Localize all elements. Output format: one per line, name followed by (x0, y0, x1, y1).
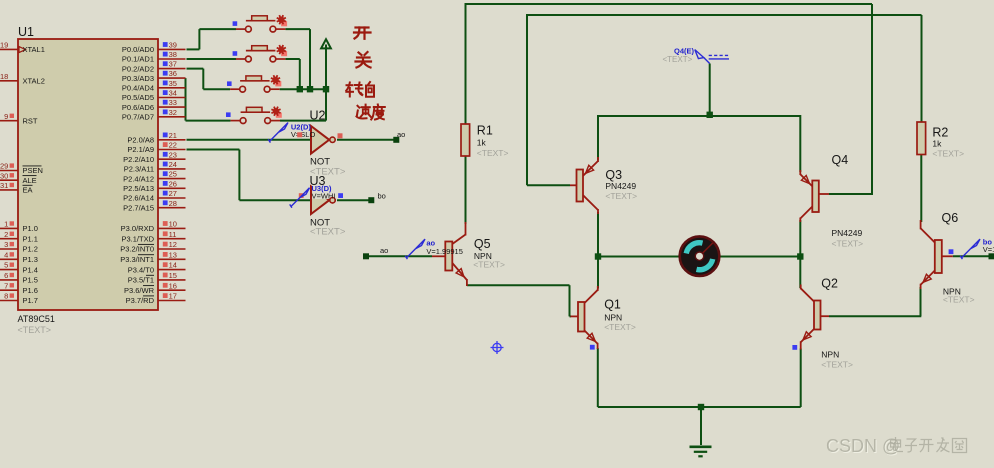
probe U3(D) (290, 188, 310, 208)
svg-text:P0.3/AD3: P0.3/AD3 (122, 74, 154, 83)
pin P2.2/A10 number 23 (123, 150, 185, 164)
svg-text:26: 26 (169, 179, 177, 188)
wire button2 drop (299, 59, 301, 89)
button SW2 (pin38) (236, 46, 286, 62)
svg-text:P2.2/A10: P2.2/A10 (123, 155, 154, 164)
wire power drop common node (325, 48, 327, 121)
svg-text:V=1.99915: V=1.99915 (426, 247, 463, 256)
svg-text:14: 14 (169, 261, 177, 270)
svg-text:U2: U2 (310, 109, 326, 123)
wire riser x872 to Q4 base (871, 4, 873, 194)
wire ground stem (700, 407, 702, 445)
wire button1 right (286, 28, 311, 30)
wire Q1 collector riser (597, 257, 599, 289)
pin P3.4/T0 number 14 (128, 261, 186, 275)
transistor Q2 NPN (801, 285, 829, 350)
svg-text:28: 28 (169, 199, 177, 208)
svg-text:AT89C51: AT89C51 (18, 314, 55, 324)
svg-text:16: 16 (169, 281, 177, 290)
wire pin22 east (187, 149, 240, 151)
svg-text:<TEXT>: <TEXT> (477, 148, 509, 158)
svg-text:P3.0/RXD: P3.0/RXD (121, 224, 155, 233)
svg-text:13: 13 (169, 250, 177, 259)
svg-text:3: 3 (4, 240, 8, 249)
wire motor left (598, 256, 679, 258)
svg-text:<TEXT>: <TEXT> (18, 325, 52, 335)
wire U3 output to bo terminal (337, 199, 371, 201)
button SW3 (pin37) (230, 76, 280, 92)
marker blue Q2 (792, 345, 797, 350)
wire pin38 to button2 (187, 58, 237, 60)
label chinese sudu (speed) (357, 105, 385, 120)
svg-text:32: 32 (169, 108, 177, 117)
wire motor right (721, 256, 801, 258)
arrow Q2 emitter (803, 332, 811, 340)
wire riser x527 down to Q3 base (526, 14, 528, 185)
pin P2.7/A15 number 28 (123, 199, 185, 213)
not-gate U3 (311, 186, 335, 214)
marker red U3 input (299, 193, 304, 198)
not-gate U2 (311, 126, 335, 154)
svg-text:P0.1/AD1: P0.1/AD1 (122, 55, 154, 64)
svg-text:12: 12 (169, 240, 177, 249)
svg-text:EA: EA (23, 186, 33, 195)
svg-text:ao: ao (380, 246, 388, 255)
wire pin36 drop (185, 78, 187, 121)
wire probe Q4E riser (709, 64, 711, 117)
wire Q6 emitter to Q2 base (829, 315, 921, 317)
svg-text:P1.1: P1.1 (23, 234, 38, 243)
svg-text:15: 15 (169, 271, 177, 280)
marker blue button1 (233, 21, 238, 26)
svg-text:P2.7/A15: P2.7/A15 (123, 203, 154, 212)
pin mark XTAL1 arrow (19, 47, 26, 53)
svg-text:P2.4/A12: P2.4/A12 (123, 174, 154, 183)
svg-text:18: 18 (0, 72, 8, 81)
junction button2 drop (297, 86, 303, 92)
pin P2.1/A9 number 22 (127, 141, 185, 155)
wire Q3Q4 emitter rail y116 (598, 115, 800, 117)
svg-text:38: 38 (169, 50, 177, 59)
arrow Q5 emitter (456, 269, 464, 277)
wire pin39 east (187, 48, 200, 50)
svg-text:P1.4: P1.4 (23, 265, 38, 274)
pin P1.3 number 4 (0, 250, 38, 264)
svg-text:37: 37 (169, 60, 177, 69)
pin P0.0/AD0 number 39 (122, 41, 186, 55)
transistor Q4 PN4249 (800, 170, 829, 222)
svg-text:Q3: Q3 (605, 168, 622, 182)
svg-text:P1.6: P1.6 (23, 286, 38, 295)
pin P1.1 number 2 (0, 230, 38, 244)
svg-text:17: 17 (169, 292, 177, 301)
svg-text:2: 2 (4, 230, 8, 239)
pin P3.7/RD number 17 (126, 292, 186, 306)
wire Q1 base riser (569, 285, 571, 316)
svg-text:27: 27 (169, 189, 177, 198)
wire Q2 emitter drop to ground rail (800, 349, 802, 408)
wire second rail Q3base to R2top (527, 14, 922, 16)
svg-text:<TEXT>: <TEXT> (821, 360, 853, 370)
wire button3 right common (280, 88, 326, 90)
svg-text:P1.2: P1.2 (23, 245, 38, 254)
svg-text:P2.0/A8: P2.0/A8 (127, 136, 154, 145)
svg-text:P0.6/AD6: P0.6/AD6 (122, 103, 154, 112)
svg-text:<TEXT>: <TEXT> (943, 295, 975, 305)
svg-text:P3.3/INT1: P3.3/INT1 (120, 255, 154, 264)
pin P1.2 number 3 (0, 240, 38, 254)
wire top rail R1top to Q4 base riser (466, 3, 873, 5)
pin P1.5 number 6 (0, 271, 38, 285)
svg-text:Q4: Q4 (832, 153, 849, 167)
marker blue Q1 (590, 345, 595, 350)
svg-text:R1: R1 (477, 124, 493, 138)
wire ground rail (598, 406, 801, 408)
pin P1.4 number 5 (0, 261, 38, 275)
svg-text:1k: 1k (477, 137, 487, 147)
svg-text:<TEXT>: <TEXT> (663, 55, 693, 64)
svg-text:<TEXT>: <TEXT> (605, 191, 637, 201)
ground (690, 447, 712, 457)
pin P3.2/INT0 number 12 (120, 240, 185, 254)
pin P0.3/AD3 number 36 (122, 69, 186, 83)
wire R1 top riser (465, 3, 467, 124)
svg-text:P1.3: P1.3 (23, 255, 38, 264)
wire Q3 collector to motor-left node (597, 212, 599, 258)
arrow Q3 emitter (586, 165, 594, 173)
svg-text:<TEXT>: <TEXT> (932, 148, 964, 158)
svg-text:33: 33 (169, 98, 177, 107)
pin P3.6/WR number 16 (124, 281, 186, 295)
wire Q4 base horizontal (829, 193, 873, 195)
svg-text:22: 22 (169, 141, 177, 150)
transistor Q1 NPN (571, 286, 598, 349)
pin P3.3/INT1 number 13 (120, 250, 185, 264)
transistor Q5 NPN (432, 222, 467, 286)
svg-text:36: 36 (169, 69, 177, 78)
svg-text:<TEXT>: <TEXT> (604, 322, 636, 332)
arrow Q6 emitter (923, 274, 931, 282)
pin P0.4/AD4 number 35 (122, 79, 186, 93)
terminal bo input (989, 253, 994, 259)
svg-text:P2.1/A9: P2.1/A9 (127, 145, 154, 154)
terminal ao output (393, 137, 399, 143)
svg-text:30: 30 (0, 171, 8, 180)
svg-text:25: 25 (169, 170, 177, 179)
svg-text:Q5: Q5 (474, 237, 491, 251)
arrow Q4 emitter (801, 176, 809, 184)
marker blue U3 output (338, 193, 343, 198)
svg-text:P3.1/TXD: P3.1/TXD (121, 234, 154, 243)
svg-text:11: 11 (169, 230, 177, 239)
wire Q6 base to bo terminal (953, 255, 992, 257)
svg-text:NPN: NPN (821, 349, 839, 359)
svg-text:19: 19 (0, 41, 8, 50)
watermark chinese dianzikaifaquan (891, 437, 967, 453)
svg-text:34: 34 (169, 89, 177, 98)
wire Q1 emitter drop to ground rail (597, 348, 599, 407)
svg-text:PN4249: PN4249 (832, 228, 863, 238)
pin P1.0 number 1 (0, 220, 38, 234)
svg-text:P0.0/AD0: P0.0/AD0 (122, 45, 154, 54)
svg-text:P0.4/AD4: P0.4/AD4 (122, 84, 154, 93)
junction button1 drop (307, 86, 313, 92)
wire pin21 to U2 input (187, 139, 312, 141)
svg-text:P3.7/RD: P3.7/RD (126, 296, 155, 305)
origin marker (491, 341, 504, 354)
svg-text:10: 10 (169, 220, 177, 229)
svg-text:ao: ao (397, 130, 405, 139)
svg-text:P2.3/A11: P2.3/A11 (124, 165, 154, 174)
junction ground rail (698, 404, 704, 410)
wire Q1 base stubjoin (570, 315, 572, 317)
junction power node (323, 86, 329, 92)
probe ao Q5 (405, 239, 425, 259)
svg-text:1k: 1k (932, 139, 942, 149)
svg-text:29: 29 (0, 162, 8, 171)
svg-text:P1.5: P1.5 (23, 276, 38, 285)
probe bo Q6 (960, 239, 980, 259)
svg-text:RST: RST (23, 116, 38, 125)
pin RST number 9 (0, 112, 38, 126)
label chinese guan (switch) (356, 52, 372, 68)
wire pin39 riser (198, 29, 200, 49)
pin P2.5/A13 number 26 (123, 179, 185, 193)
junction Q4E probe tap (707, 112, 713, 118)
pin ALE number 30 (0, 171, 37, 185)
svg-text:P1.0: P1.0 (23, 224, 38, 233)
svg-text:Q1: Q1 (604, 298, 621, 312)
wire Q2 collector riser (799, 257, 801, 289)
pin P0.5/AD5 number 34 (122, 89, 186, 103)
svg-text:V=WHI: V=WHI (312, 191, 336, 200)
pin XTAL2 number 18 (0, 72, 45, 86)
marker blue Q6 (949, 249, 954, 254)
pin P3.1/TXD number 11 (121, 230, 185, 244)
wire button1 drop (309, 29, 311, 89)
svg-text:9: 9 (4, 112, 8, 121)
svg-text:P3.2/INT0: P3.2/INT0 (120, 245, 154, 254)
pin P0.6/AD6 number 33 (122, 98, 186, 112)
svg-text:<TEXT>: <TEXT> (310, 227, 346, 238)
pin P3.0/RXD number 10 (121, 220, 186, 234)
svg-text:8: 8 (4, 292, 8, 301)
probe U2(D) (268, 123, 288, 143)
wire Q4 collector drop (799, 220, 801, 257)
svg-text:PN4249: PN4249 (605, 181, 636, 191)
pin P1.7 number 8 (0, 292, 38, 306)
svg-text:4: 4 (4, 250, 8, 259)
svg-text:<TEXT>: <TEXT> (473, 260, 505, 270)
button SW4 (pin36) (231, 107, 281, 123)
wire to button3 left (203, 88, 230, 90)
svg-text:P3.4/T0: P3.4/T0 (128, 265, 154, 274)
svg-text:P1.7: P1.7 (23, 296, 38, 305)
pin PSEN number 29 (0, 162, 43, 176)
transistor Q6 NPN (921, 220, 953, 289)
marker blue button3 (227, 81, 232, 86)
svg-text:1: 1 (4, 220, 8, 229)
resistor R1 (461, 124, 470, 156)
labelbox U3 covers (312, 184, 339, 199)
wire pin37 east (187, 68, 204, 70)
svg-text:U1: U1 (18, 25, 34, 39)
wire R1 bottom to Q5 collector (465, 156, 467, 224)
svg-text:39: 39 (169, 41, 177, 50)
wire U2 output to ao terminal (337, 139, 396, 141)
wire button4 right (280, 120, 326, 122)
svg-text:XTAL2: XTAL2 (23, 77, 45, 86)
terminal ao input (363, 253, 369, 259)
pin P3.5/T1 number 15 (128, 271, 186, 285)
junction motor left node (595, 253, 601, 259)
svg-text:R2: R2 (932, 126, 948, 140)
svg-text:Q2: Q2 (821, 277, 838, 291)
svg-text:7: 7 (4, 281, 8, 290)
svg-text:P3.6/WR: P3.6/WR (124, 286, 155, 295)
button SW1 (pin39) (236, 16, 286, 32)
pin P2.6/A14 number 27 (123, 189, 185, 203)
svg-text:24: 24 (169, 160, 177, 169)
wire to button4 left (186, 120, 231, 122)
pin XTAL1 number 19 (0, 41, 45, 55)
power terminal arrow (321, 39, 331, 49)
svg-text:P2.6/A14: P2.6/A14 (123, 194, 154, 203)
svg-text:P3.5/T1: P3.5/T1 (128, 276, 154, 285)
wire Q3 base horizontal (527, 184, 570, 186)
pin P0.7/AD7 number 32 (122, 108, 186, 122)
svg-text:5: 5 (4, 261, 8, 270)
label chinese zhuanxiang (direction) (346, 82, 374, 97)
pin P0.2/AD2 number 37 (122, 60, 186, 74)
wire R2 bottom to Q6 collector (920, 155, 922, 223)
svg-text:CSDN @: CSDN @ (826, 436, 900, 456)
svg-text:P0.2/AD2: P0.2/AD2 (122, 64, 154, 73)
pin P0.1/AD1 number 38 (122, 50, 186, 64)
svg-text:NPN: NPN (604, 312, 622, 322)
wire to button1 left (199, 28, 236, 30)
wire Q3 emitter drop (597, 115, 599, 160)
svg-text:P0.7/AD7: P0.7/AD7 (122, 113, 154, 122)
resistor R2 (917, 122, 926, 155)
wire ao terminal to Q5 base (369, 255, 432, 257)
wire pin37 drop (202, 69, 204, 90)
marker blue button4 (226, 112, 231, 117)
svg-text:V=1.9: V=1.9 (983, 245, 994, 254)
wire button2 right (286, 58, 300, 60)
wire Q4 emitter drop (799, 115, 801, 172)
marker red U2 input (297, 132, 302, 137)
wire R2 top riser (921, 15, 923, 122)
motor M1 (680, 236, 720, 276)
svg-text:31: 31 (0, 181, 8, 190)
svg-text:PSEN: PSEN (23, 166, 43, 175)
svg-text:P0.5/AD5: P0.5/AD5 (122, 93, 154, 102)
transistor Q3 PN4249 (570, 157, 598, 214)
pin P2.0/A8 number 21 (127, 131, 185, 145)
svg-text:<TEXT>: <TEXT> (832, 239, 864, 249)
wire Q5 emitter to Q1 base riser (467, 284, 570, 286)
pin P1.6 number 7 (0, 281, 38, 295)
svg-text:6: 6 (4, 271, 8, 280)
svg-text:XTAL1: XTAL1 (23, 45, 45, 54)
pin P2.3/A11 number 24 (124, 160, 186, 174)
wire to U3 input (239, 199, 311, 201)
watermark CSDN (826, 436, 901, 457)
marker blue button2 (233, 51, 238, 56)
mcu U1 AT89C51 body (18, 39, 158, 310)
wire pin22 drop (238, 150, 240, 201)
wire Q6 emitter drop (920, 287, 922, 316)
svg-text:V=SLO: V=SLO (291, 130, 316, 139)
svg-text:23: 23 (169, 150, 177, 159)
marker red U2 output (338, 133, 343, 138)
svg-text:35: 35 (169, 79, 177, 88)
svg-text:21: 21 (169, 131, 177, 140)
svg-text:P2.5/A13: P2.5/A13 (123, 184, 154, 193)
arrow Q1 emitter (587, 333, 595, 341)
svg-text:bo: bo (378, 192, 386, 201)
junction motor right node (797, 253, 803, 259)
pin EA number 31 (0, 181, 33, 195)
svg-text:Q6: Q6 (942, 211, 959, 225)
pin P2.4/A12 number 25 (123, 170, 185, 184)
label chinese kai (open) (354, 28, 371, 39)
svg-text:ALE: ALE (23, 176, 37, 185)
terminal bo output (368, 197, 374, 203)
probe Q4(E) (695, 50, 729, 64)
